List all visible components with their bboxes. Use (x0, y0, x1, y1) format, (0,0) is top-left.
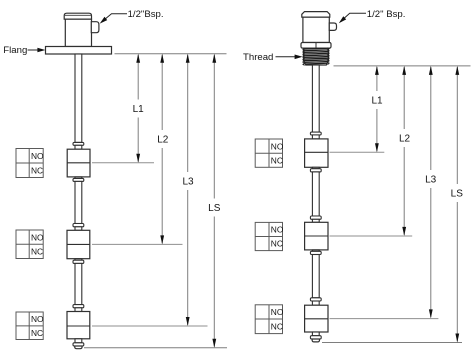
left stem neck above float 1 (75, 145, 82, 149)
left switch table float 3 (16, 312, 43, 340)
right dimension L1 (376, 67, 378, 91)
left sensor head body (65, 19, 91, 46)
svg-text:NO: NO (271, 141, 284, 151)
svg-text:1/2" Bsp.: 1/2" Bsp. (367, 9, 406, 20)
right switch table float 1 (255, 139, 282, 167)
left extension line float 3 (92, 325, 208, 327)
left cable entry port 1/2 BSP (91, 22, 99, 33)
right stem segment 3 (312, 255, 319, 298)
svg-text:NO: NO (31, 232, 44, 242)
right stem segment 1 (312, 65, 319, 132)
right bottom end cap (312, 339, 319, 342)
right float 2 (305, 222, 328, 250)
svg-text:LS: LS (451, 189, 464, 200)
svg-text:NC: NC (31, 328, 43, 338)
right sensor head body (303, 17, 329, 42)
right stem neck above float 3 (312, 301, 319, 305)
svg-text:NC: NC (271, 322, 283, 332)
left stem neck below float 2 (75, 259, 82, 261)
left stop collar below float 2 (73, 260, 84, 263)
svg-text:LS: LS (208, 203, 221, 214)
left stem neck below float 3 (75, 339, 82, 343)
right hex collar facet line (315, 43, 317, 49)
left datum extension line at flange bottom (115, 53, 227, 55)
right stop collar below float 2 (310, 251, 321, 254)
right stem neck above float 1 (312, 135, 319, 139)
left stop collar below float 1 (73, 178, 84, 181)
left extension line float 2 (92, 243, 183, 245)
right stem neck below float 3 (312, 332, 319, 336)
right stop collar above float 3 (310, 298, 321, 301)
right threaded connection (303, 48, 329, 66)
right dimension LS (456, 67, 458, 184)
svg-text:NC: NC (271, 155, 283, 165)
left stem segment 3 (75, 263, 82, 304)
left sensor head cap (64, 13, 91, 19)
right dimension L3 (430, 67, 432, 170)
left dimension L3 (187, 55, 189, 172)
arrowhead Flang (37, 48, 45, 53)
leader line 1/2 Bsp right (340, 13, 366, 22)
left float 1 (67, 149, 90, 177)
svg-text:1/2"Bsp.: 1/2"Bsp. (128, 9, 164, 20)
right stem neck below float 1 (312, 167, 319, 168)
svg-text:NO: NO (31, 151, 44, 161)
svg-text:Flang: Flang (3, 45, 27, 56)
left stem segment 1 (75, 54, 82, 142)
left stop collar above float 3 (73, 305, 84, 308)
left stem neck above float 3 (75, 308, 82, 312)
right switch table float 2 (255, 222, 282, 250)
left dimension L2 (161, 55, 163, 130)
left stem neck above float 2 (75, 227, 82, 231)
left extension line stem end (84, 347, 227, 349)
right stem neck below float 2 (312, 250, 319, 251)
right switch table float 3 (255, 305, 282, 334)
left flange plate (46, 47, 112, 55)
right stop collar bottom (310, 336, 321, 339)
right hex collar (301, 43, 331, 49)
arrowhead 1/2 Bsp right (339, 16, 346, 23)
svg-text:NC: NC (31, 247, 43, 257)
right sensor head cap (302, 12, 330, 18)
right extension line float 3 (330, 318, 439, 320)
left dimension L1 (137, 55, 139, 100)
right dimension L2 (403, 67, 405, 129)
left float 3 (67, 312, 90, 339)
svg-text:NO: NO (31, 314, 44, 324)
leader line Flang (28, 49, 40, 51)
svg-text:NC: NC (31, 165, 43, 175)
svg-text:NO: NO (271, 307, 284, 317)
arrowhead 1/2 Bsp left (100, 17, 108, 24)
svg-text:L3: L3 (425, 175, 437, 186)
svg-text:Thread: Thread (243, 52, 273, 63)
right extension line float 1 (330, 151, 385, 153)
right float 1 (305, 139, 328, 167)
svg-text:L2: L2 (399, 134, 411, 145)
left stem neck below float 1 (75, 177, 82, 179)
left stop collar above float 1 (73, 142, 84, 145)
right cable entry port 1/2 BSP (329, 23, 336, 30)
left stop collar above float 2 (73, 224, 84, 227)
right datum extension line at thread bottom (334, 65, 471, 67)
left float 2 (67, 230, 90, 258)
left head cap rim line (65, 14, 91, 16)
right stem neck above float 2 (312, 219, 319, 222)
svg-text:L1: L1 (133, 104, 145, 115)
left switch table float 1 (16, 149, 43, 178)
svg-text:L2: L2 (157, 135, 169, 146)
svg-text:NC: NC (271, 239, 283, 249)
right stem segment 2 (312, 172, 319, 216)
svg-text:L1: L1 (371, 96, 383, 107)
left dimension LS (213, 55, 215, 199)
left extension line float 1 (92, 162, 154, 164)
right extension line stem end (322, 342, 462, 344)
leader line Thread (276, 56, 296, 58)
arrowhead Thread (295, 55, 303, 60)
left stop collar bottom (73, 343, 84, 346)
right stop collar above float 1 (310, 132, 321, 135)
svg-text:L3: L3 (182, 177, 194, 188)
right extension line float 2 (330, 235, 413, 237)
svg-text:NO: NO (271, 225, 284, 235)
right stop collar below float 1 (310, 169, 321, 172)
leader line 1/2 Bsp left (101, 14, 127, 22)
left bottom end cap (75, 346, 82, 349)
left switch table float 2 (16, 230, 43, 259)
right stop collar above float 2 (310, 216, 321, 219)
left stem segment 2 (75, 181, 82, 223)
right float 3 (305, 305, 328, 332)
